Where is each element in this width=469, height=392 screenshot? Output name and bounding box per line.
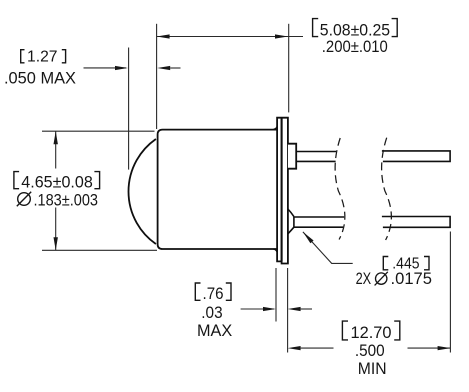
extension line flange back	[288, 24, 290, 113]
arrowhead 1.27 left	[115, 66, 128, 70]
arrowhead .03 left	[263, 307, 276, 311]
dimension line 12.70 right	[408, 347, 451, 349]
svg-text:.76: .76	[203, 284, 224, 303]
arrowhead 12.70 right	[438, 346, 451, 350]
tail .03 right	[301, 308, 312, 310]
body-to-flange fillet bottom	[274, 249, 278, 252]
svg-text:.050 MAX: .050 MAX	[4, 69, 76, 88]
leader .03 MAX	[241, 308, 274, 310]
arrowhead 1.27 right	[157, 66, 170, 70]
svg-text:MAX: MAX	[197, 321, 232, 340]
dimension line 12.70 left	[301, 347, 334, 349]
tail 1.27 right	[170, 67, 180, 69]
LED body cylinder	[158, 130, 277, 249]
text [ .445 ]	[383, 257, 429, 270]
svg-text:12.70: 12.70	[351, 323, 392, 342]
arrowhead 4.65 up	[54, 131, 58, 144]
extension line flange right face	[287, 268, 289, 353]
text [4.65±0.08]	[14, 172, 100, 189]
extension line dome bottom	[42, 249, 157, 251]
svg-text:.200±.010: .200±.010	[322, 37, 388, 56]
upper lead tab	[288, 144, 296, 169]
break line left	[335, 138, 345, 240]
text [ 1.27 ]	[21, 50, 66, 63]
dome lens arc	[129, 139, 156, 244]
arrowhead 5.08 left	[157, 34, 170, 38]
svg-text:.183±.003: .183±.003	[34, 191, 99, 210]
text [5.08±0.25]	[313, 19, 398, 37]
svg-text:.500: .500	[355, 341, 385, 360]
extension line body front	[156, 24, 158, 129]
svg-text:MIN: MIN	[358, 359, 387, 378]
flange middle line	[281, 118, 283, 262]
extension line flange left face	[275, 268, 277, 322]
extension line dome top	[42, 130, 155, 132]
lower lead flare	[288, 209, 294, 234]
leader 2X dia	[303, 232, 353, 264]
dimension line 5.08	[157, 36, 303, 38]
upper lead left segment	[296, 152, 336, 162]
svg-text:.0175: .0175	[391, 269, 433, 288]
arrowhead 5.08 right	[275, 34, 288, 38]
flange outline	[277, 118, 288, 264]
upper lead right segment	[382, 151, 450, 162]
svg-text:2X: 2X	[356, 269, 372, 288]
arrowhead 4.65 down	[54, 237, 58, 250]
text [.76]	[195, 283, 231, 300]
lower lead right segment	[382, 217, 450, 228]
dimension line 4.65 lower	[55, 208, 57, 251]
extension line lead end	[449, 232, 451, 353]
dimension line 4.65 upper	[55, 131, 57, 168]
text dia .183±.003	[18, 193, 31, 206]
arrowhead .03 right	[288, 307, 301, 311]
break line right	[382, 138, 392, 240]
arrowhead 2X dia	[303, 232, 314, 243]
text [12.70]	[342, 321, 399, 340]
svg-text:4.65±0.08: 4.65±0.08	[21, 173, 93, 192]
leader 1.27	[84, 67, 127, 69]
body-to-flange fillet top	[274, 127, 278, 130]
lower lead left segment	[294, 217, 344, 227]
arrowhead 12.70 left	[288, 346, 301, 350]
extension line dome apex	[128, 48, 130, 170]
svg-text:1.27: 1.27	[27, 49, 58, 66]
svg-text:.03: .03	[201, 303, 222, 322]
